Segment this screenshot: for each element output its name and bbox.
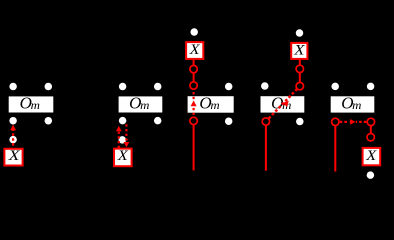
qubit dot top-left (panel 1) — [9, 83, 17, 91]
qubit dot top-left (panel 4) — [261, 82, 269, 90]
red node R2 (panel 5) — [367, 134, 374, 141]
qubit dot bottom-left (panel 1) — [9, 117, 17, 125]
red node R (panel 5) — [367, 118, 374, 125]
X gate box (panel 3) — [186, 42, 203, 59]
arrowhead up (panel 2) — [116, 126, 122, 131]
red node C (panel 3) — [190, 117, 197, 124]
wire node R to node R2 (panel 5) — [370, 126, 372, 134]
measurement box O_m (panel 4) — [261, 94, 305, 113]
svg-text:m: m — [210, 100, 219, 112]
wire X to node (panel 4) — [299, 60, 301, 66]
red node A (panel 3) — [190, 65, 197, 72]
qubit dot below X (panel 5) — [367, 171, 375, 179]
red node B (panel 4) — [296, 82, 303, 89]
svg-text:m: m — [31, 100, 40, 112]
qubit dot bottom-left (panel 2) — [119, 117, 127, 125]
arrowhead up (panel 3) — [191, 100, 197, 106]
svg-text:X: X — [293, 43, 305, 59]
measurement box O_m (panel 3) — [188, 94, 234, 113]
dashed diagonal propagation wire (panel 4) — [268, 89, 297, 119]
wire down (panel 4) — [265, 125, 267, 170]
svg-text:X: X — [188, 42, 200, 58]
svg-text:X: X — [117, 148, 129, 164]
dashed propagation wire over box (panel 3) — [193, 92, 195, 99]
X gate box (panel 4) — [291, 43, 307, 59]
measurement box O_m (panel 5) — [331, 94, 375, 113]
arrowhead up (panel 1) — [10, 125, 16, 131]
dashed horizontal propagation wire (panel 5) — [340, 121, 349, 123]
qubit dot bottom-right (panel 1) — [45, 117, 53, 125]
wire down from node L (panel 5) — [334, 126, 336, 172]
wire node A to node B (panel 4) — [299, 73, 301, 83]
red node C (panel 4) — [262, 118, 269, 125]
wire node A to node B (panel 3) — [193, 73, 195, 82]
svg-text:m: m — [352, 100, 361, 112]
X gate box (panel 5) — [363, 148, 381, 165]
qubit dot top-right (panel 3) — [225, 83, 233, 91]
qubit dot top-left (panel 5) — [331, 83, 339, 91]
qubit dot top-right (panel 1) — [45, 83, 53, 91]
ancilla dot (panel 1) — [9, 136, 17, 144]
dashed propagation wire up (panel 1) — [12, 130, 14, 148]
dashed wire up-left (panel 2) — [118, 131, 120, 148]
measurement box O_m (panel 1) — [9, 94, 54, 113]
red node B (panel 3) — [190, 82, 197, 89]
X gate box (panel 2) — [114, 148, 132, 166]
red node L (panel 5) — [332, 118, 339, 125]
qubit dot above X (panel 4) — [296, 29, 304, 37]
wire down (panel 3) — [193, 125, 195, 171]
arrowhead down (panel 2) — [124, 142, 130, 147]
svg-text:X: X — [365, 148, 377, 164]
dashed wire down-right (panel 2) — [125, 124, 127, 142]
svg-text:m: m — [140, 100, 149, 112]
qubit dot bottom-right (panel 3) — [225, 117, 233, 125]
arrowhead up-right (panel 4) — [283, 101, 289, 107]
red node A (panel 4) — [296, 65, 303, 72]
qubit dot bottom-right (panel 4) — [296, 118, 304, 126]
wire X to node (panel 3) — [193, 59, 195, 66]
qubit dot top-right (panel 2) — [154, 83, 162, 91]
measurement box O_m (panel 2) — [119, 94, 163, 113]
qubit dot above X (panel 3) — [190, 28, 198, 36]
svg-text:X: X — [7, 148, 20, 164]
qubit dot top-left (panel 2) — [119, 83, 127, 91]
X gate box (panel 1) — [4, 148, 22, 166]
qubit dot top-right (panel 5) — [367, 83, 375, 91]
ancilla dot (panel 2) — [119, 136, 127, 144]
arrowhead right (panel 5) — [350, 119, 355, 125]
qubit dot bottom-right (panel 2) — [154, 117, 162, 125]
